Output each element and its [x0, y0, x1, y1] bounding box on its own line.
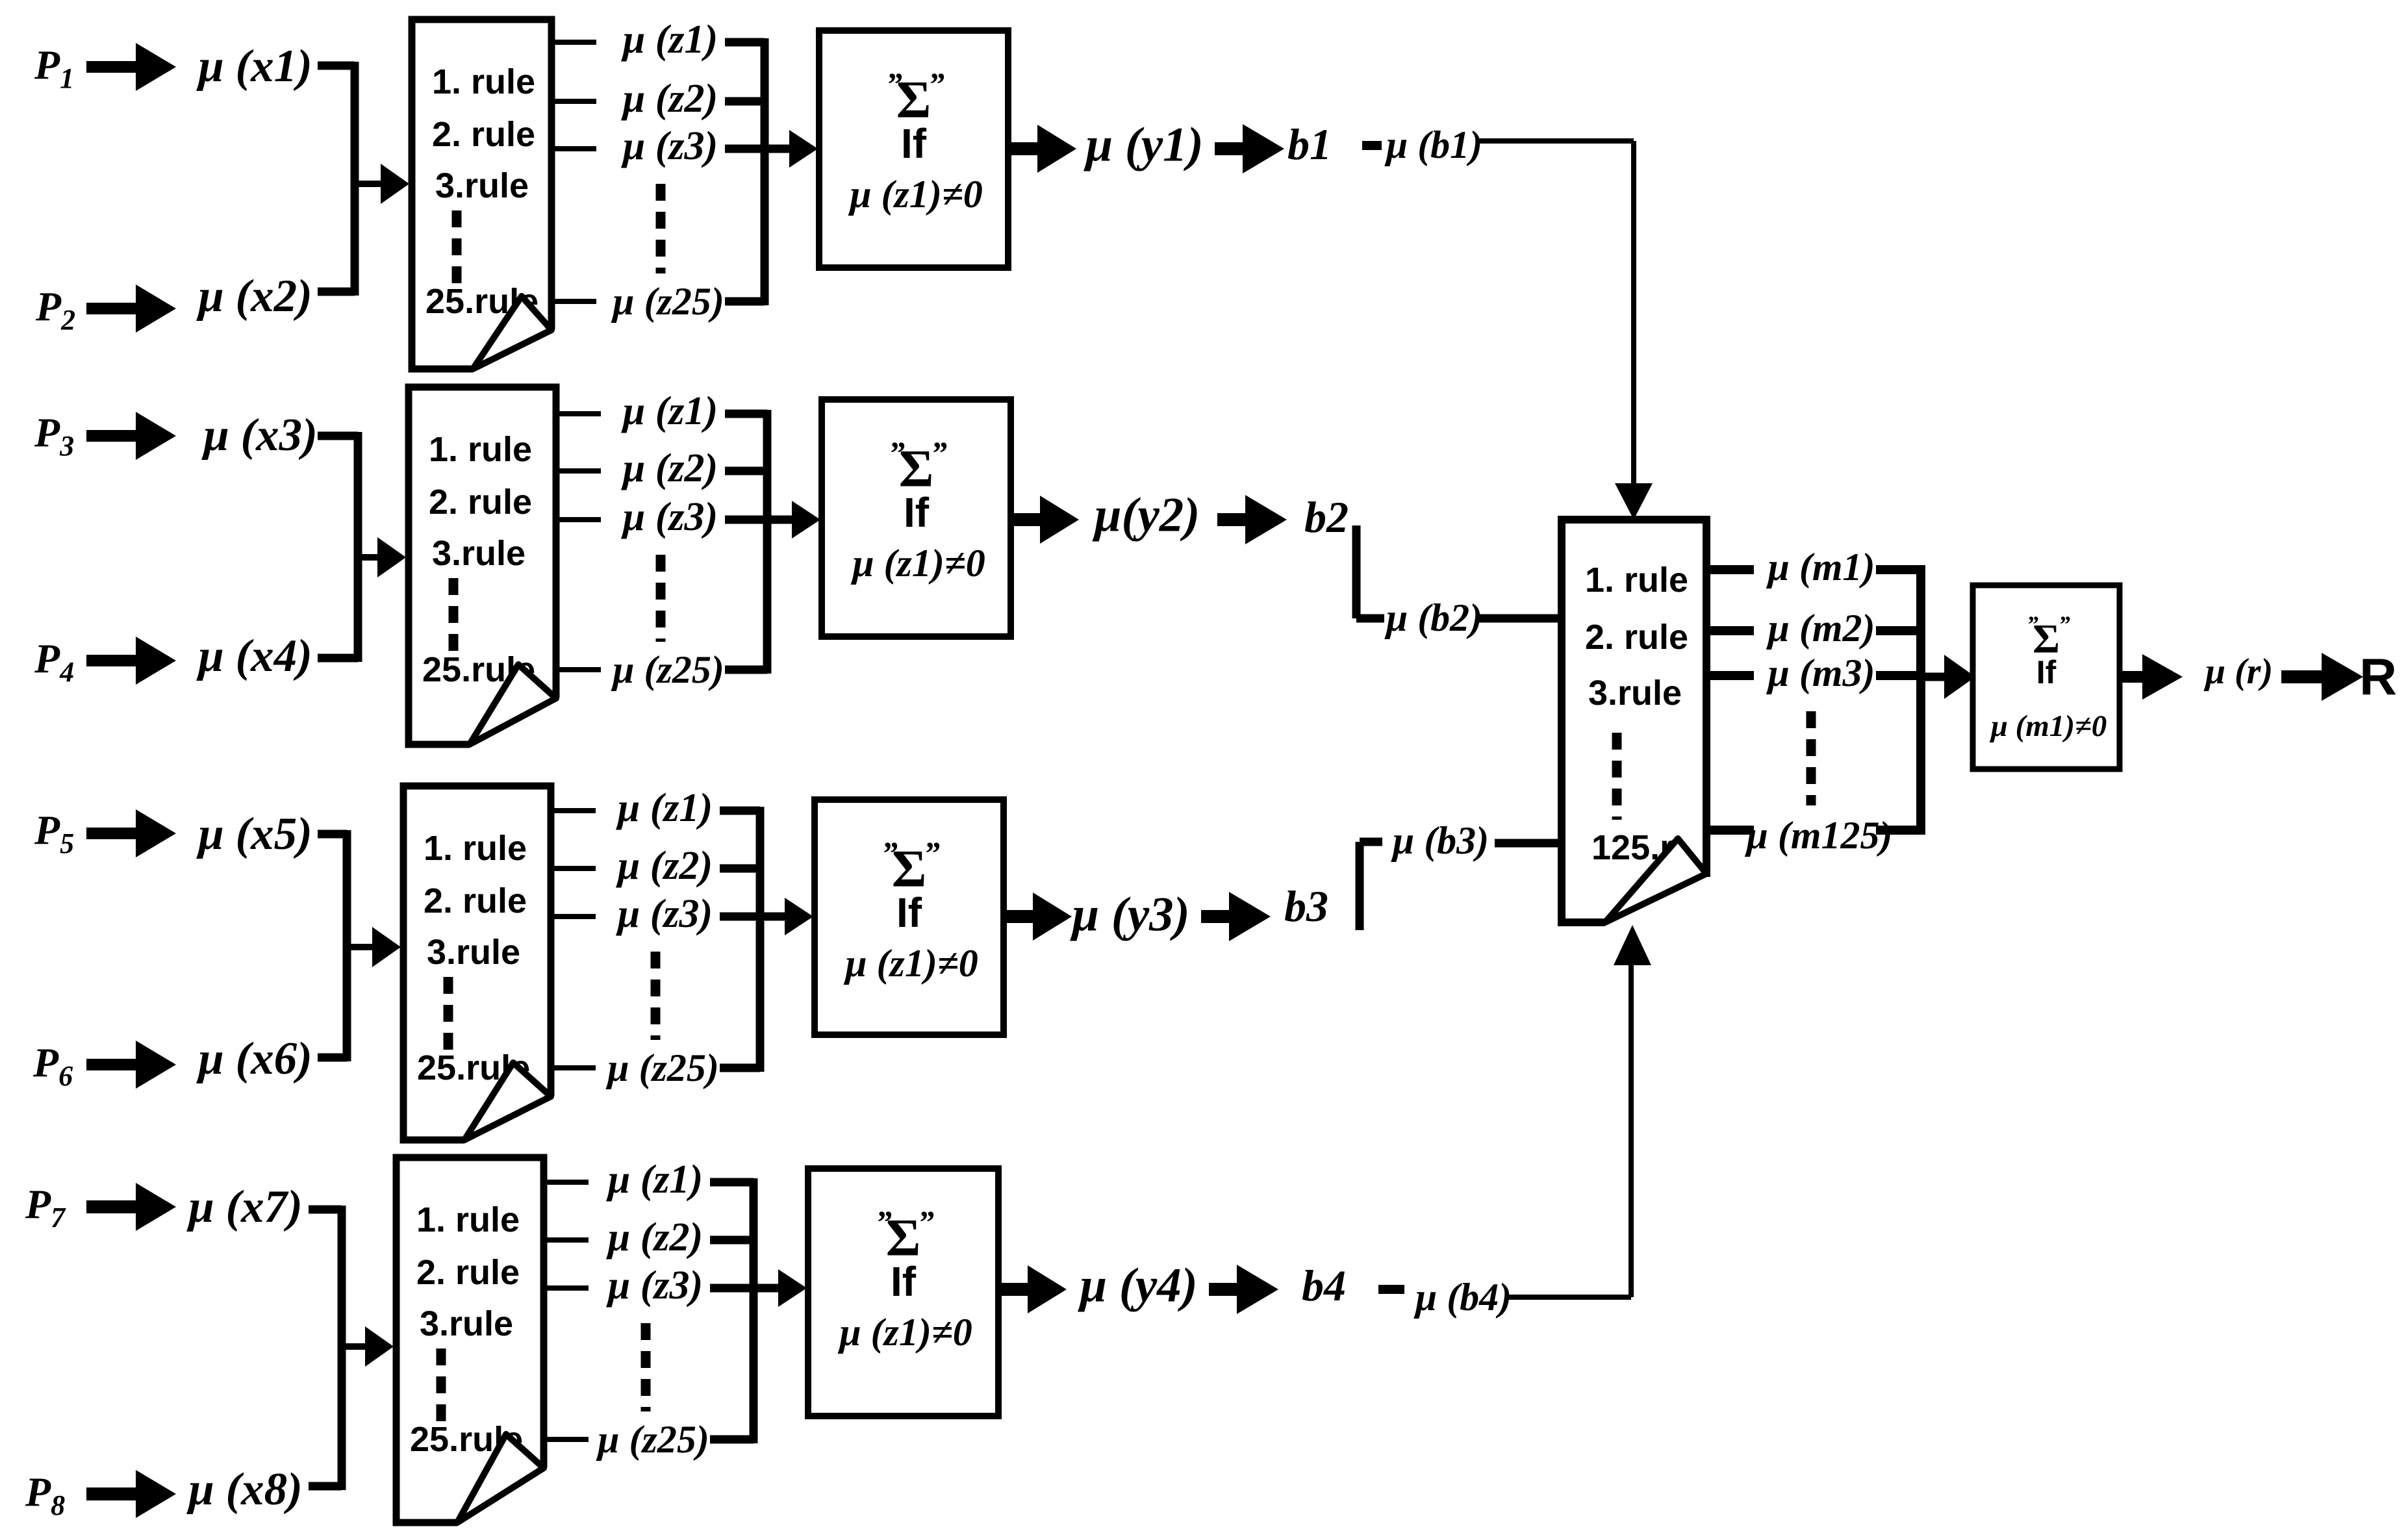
sigma box 4 — [808, 1169, 998, 1416]
svg-text:2. rule: 2. rule — [424, 881, 527, 920]
wire z2 stub row 3 — [552, 866, 596, 871]
svg-text:μ (z2): μ (z2) — [621, 446, 718, 490]
arrow out of sigma box 2 — [1011, 496, 1079, 544]
arrow into sigma box 1 — [765, 145, 789, 153]
wire mu(x5) to bracket — [318, 830, 347, 839]
svg-text:μ (z25): μ (z25) — [596, 1418, 709, 1461]
svg-text:μ (z2): μ (z2) — [621, 77, 718, 121]
svg-text:3.rule: 3.rule — [427, 933, 520, 972]
arrow out of sigma box 3 — [1004, 892, 1072, 941]
svg-text:μ (x1): μ (x1) — [196, 41, 312, 92]
wire mu(z1) to bracket row 3 — [720, 807, 760, 815]
svg-text:μ (b2): μ (b2) — [1384, 596, 1482, 639]
folded corner of rule block 4 — [457, 1434, 544, 1523]
wire b1 to central block top — [1479, 138, 1634, 144]
svg-text:μ (z3): μ (z3) — [606, 1263, 703, 1308]
wire mu(z3) to bracket row 3 — [720, 913, 760, 921]
wire b2 down from node b2 — [1352, 525, 1361, 618]
svg-text:3.rule: 3.rule — [435, 166, 529, 205]
svg-text:If: If — [896, 889, 922, 936]
rule block 2 (25 rules) — [409, 387, 556, 744]
arrow out of sigma box 4 — [998, 1265, 1067, 1313]
svg-text:b3: b3 — [1284, 881, 1328, 931]
wire mu(b3) to central block — [1495, 839, 1565, 848]
wire mu(x6) to bracket — [318, 1054, 347, 1062]
svg-text:1. rule: 1. rule — [1585, 561, 1688, 600]
wire z2 stub row 1 — [553, 99, 596, 104]
ellipsis dots z column row 3 — [651, 952, 661, 1040]
bracket z outputs row 2 — [763, 410, 772, 674]
svg-text:μ (x3): μ (x3) — [201, 410, 318, 461]
svg-text:μ (z2): μ (z2) — [606, 1215, 703, 1259]
wire mu(z1) to bracket row 4 — [710, 1178, 754, 1187]
svg-text:μ (x8): μ (x8) — [186, 1464, 303, 1515]
bracket z outputs row 1 — [761, 38, 769, 305]
arrow P1 input — [86, 43, 176, 91]
final sigma box — [1973, 585, 2120, 769]
svg-text:μ (m1): μ (m1) — [1766, 546, 1875, 588]
svg-text:3.rule: 3.rule — [1588, 674, 1682, 713]
arrow into sigma box 3 — [760, 913, 785, 921]
folded corner of central block — [1605, 839, 1706, 922]
wire z3 stub row 3 — [552, 914, 596, 919]
svg-text:2. rule: 2. rule — [1585, 618, 1688, 657]
arrow out of sigma box 1 — [1008, 125, 1076, 173]
svg-text:μ (b4): μ (b4) — [1413, 1276, 1512, 1319]
svg-text:μ (z1)≠0: μ (z1)≠0 — [850, 542, 985, 585]
arrow P8 input — [86, 1470, 176, 1518]
svg-text:b1: b1 — [1287, 120, 1332, 169]
wire z3 stub row 2 — [557, 517, 601, 522]
wire z3 stub row 1 — [553, 146, 596, 151]
svg-text:”: ” — [881, 835, 898, 871]
wire z2 stub row 2 — [557, 468, 601, 474]
bracket z outputs row 4 — [750, 1178, 758, 1443]
wire z25 stub row 3 — [552, 1065, 596, 1070]
wire mu(m125) to bracket — [1876, 826, 1921, 835]
arrow P6 input — [86, 1041, 176, 1089]
svg-text:μ (z3): μ (z3) — [621, 495, 718, 539]
svg-text:If: If — [901, 120, 927, 167]
svg-text:μ (y4): μ (y4) — [1077, 1259, 1197, 1313]
wire mu(m3) to bracket — [1876, 671, 1921, 680]
wire z1 stub row 2 — [557, 411, 601, 416]
wire mu(x7) to bracket — [309, 1206, 342, 1214]
svg-text:μ (z1)≠0: μ (z1)≠0 — [843, 942, 978, 985]
wire mu(z2) to bracket row 4 — [710, 1236, 754, 1245]
wire m125 stub — [1708, 826, 1754, 835]
svg-text:R: R — [2359, 648, 2397, 706]
wire mu(z2) to bracket row 3 — [720, 865, 760, 873]
wire mu(z1) to bracket row 1 — [725, 38, 765, 47]
wire mu(z25) to bracket row 3 — [720, 1064, 760, 1072]
svg-text:μ (x7): μ (x7) — [186, 1182, 303, 1232]
ellipsis dots z column row 1 — [656, 184, 666, 273]
wire mu(x8) to bracket — [309, 1482, 342, 1491]
svg-text:μ (z1)≠0: μ (z1)≠0 — [837, 1311, 972, 1354]
wire mu(z25) to bracket row 2 — [725, 666, 767, 674]
arrow into rule block 4 — [342, 1343, 370, 1350]
wire m1 stub — [1708, 565, 1754, 574]
wire b3 up from node b3 — [1356, 842, 1364, 930]
svg-text:μ (b3): μ (b3) — [1391, 819, 1489, 862]
svg-text:2. rule: 2. rule — [429, 483, 532, 522]
arrow P2 input — [86, 285, 176, 333]
svg-text:1. rule: 1. rule — [429, 430, 532, 469]
sigma box 1 — [819, 31, 1008, 268]
svg-text:μ (y3): μ (y3) — [1069, 888, 1189, 942]
sigma box 3 — [815, 800, 1004, 1035]
wire z3 stub row 4 — [545, 1285, 589, 1291]
wire z25 stub row 1 — [553, 299, 596, 304]
svg-text:”: ” — [2059, 611, 2070, 637]
rule block 1 (25 rules) — [412, 19, 551, 369]
bracket input merge row 3 — [343, 830, 351, 1061]
folded corner of rule block 3 — [464, 1063, 551, 1140]
svg-text:”: ” — [876, 1204, 892, 1240]
wire mu(z25) to bracket row 4 — [710, 1436, 754, 1444]
arrow out of final sigma box — [2120, 654, 2183, 700]
wire mu(m2) to bracket — [1876, 626, 1921, 635]
arrow P4 input — [86, 637, 176, 685]
arrow P5 input — [86, 809, 176, 857]
wire b4 to central block bottom — [1508, 1295, 1631, 1300]
svg-text:”: ” — [928, 66, 944, 102]
arrow mu(y3) to b3 — [1201, 892, 1271, 941]
arrow into rule block 1 — [355, 181, 386, 187]
svg-text:”: ” — [886, 66, 902, 102]
svg-text:”: ” — [918, 1204, 934, 1240]
svg-text:1. rule: 1. rule — [424, 829, 527, 868]
bracket input merge row 2 — [354, 432, 362, 662]
svg-text:μ (x5): μ (x5) — [196, 809, 312, 859]
svg-text:μ (z25): μ (z25) — [605, 1046, 719, 1089]
bracket input merge row 4 — [338, 1206, 346, 1490]
svg-text:”: ” — [2027, 611, 2038, 637]
svg-text:μ (z3): μ (z3) — [621, 124, 718, 168]
folded corner of rule block 1 — [473, 296, 551, 369]
arrow mu(y2) to b2 — [1217, 495, 1287, 544]
svg-text:2. rule: 2. rule — [416, 1253, 520, 1292]
ellipsis dots m column — [1806, 711, 1816, 805]
svg-text:”: ” — [889, 435, 905, 471]
wire mu(z2) to bracket row 2 — [725, 467, 767, 475]
svg-text:μ (m1)≠0: μ (m1)≠0 — [1990, 709, 2107, 743]
wire mu(z3) to bracket row 1 — [725, 145, 765, 153]
rule block 4 (25 rules) — [396, 1158, 544, 1523]
svg-text:μ(y2): μ(y2) — [1092, 488, 1200, 542]
svg-text:μ (z1): μ (z1) — [616, 786, 713, 830]
arrow mu(r) to R — [2281, 653, 2363, 701]
svg-text:μ (z1): μ (z1) — [606, 1158, 703, 1202]
wire mu(z3) to bracket row 2 — [725, 516, 767, 524]
svg-text:2. rule: 2. rule — [432, 115, 535, 154]
wire z2 stub row 4 — [545, 1237, 589, 1243]
wire mu(x1) to bracket — [318, 62, 355, 70]
wire mu(x4) to bracket — [318, 654, 358, 663]
wire z1 stub row 1 — [553, 40, 596, 45]
svg-text:μ (z3): μ (z3) — [616, 892, 713, 936]
arrow into sigma box 2 — [767, 516, 792, 524]
folded corner of rule block 2 — [470, 664, 556, 744]
wire mu(z25) to bracket row 1 — [725, 297, 765, 306]
wire mu(z3) to bracket row 4 — [710, 1284, 754, 1293]
wire z1 stub row 4 — [545, 1180, 589, 1185]
arrow into sigma box 4 — [754, 1284, 778, 1293]
svg-text:If: If — [2036, 654, 2057, 690]
svg-text:μ (z1)≠0: μ (z1)≠0 — [848, 173, 983, 216]
bracket m outputs — [1916, 565, 1925, 835]
wire m3 stub — [1708, 671, 1754, 680]
wire m2 stub — [1708, 626, 1754, 635]
svg-text:μ (z1): μ (z1) — [621, 18, 718, 62]
svg-text:μ (x2): μ (x2) — [196, 271, 312, 322]
svg-text:μ (m3): μ (m3) — [1766, 652, 1875, 694]
svg-text:μ (r): μ (r) — [2203, 652, 2273, 692]
svg-text:”: ” — [924, 835, 940, 871]
sigma box 2 — [822, 399, 1011, 637]
svg-text:μ (m2): μ (m2) — [1766, 607, 1875, 650]
svg-text:μ (z2): μ (z2) — [616, 844, 713, 888]
dash before mu(b4) — [1378, 1285, 1404, 1294]
wire mu(z2) to bracket row 1 — [725, 97, 765, 106]
svg-text:”: ” — [931, 435, 947, 471]
arrow into final sigma box — [1921, 673, 1948, 681]
dash before mu(b1) — [1362, 141, 1382, 150]
wire z1 stub row 3 — [552, 808, 596, 813]
svg-text:μ (y1): μ (y1) — [1083, 118, 1203, 172]
svg-text:If: If — [891, 1258, 917, 1305]
wire mu(x2) to bracket — [318, 288, 355, 296]
rule block 3 (25 rules) — [403, 786, 551, 1140]
wire z25 stub row 2 — [557, 667, 601, 672]
svg-text:μ (m125): μ (m125) — [1745, 814, 1893, 857]
wire mu(x3) to bracket — [318, 432, 358, 440]
wire mu(z1) to bracket row 2 — [725, 410, 767, 418]
svg-text:μ (x6): μ (x6) — [196, 1033, 312, 1084]
svg-text:μ (z25): μ (z25) — [611, 280, 724, 323]
wire z25 stub row 4 — [545, 1437, 589, 1442]
svg-text:3.rule: 3.rule — [420, 1304, 513, 1343]
ellipsis dots z column row 4 — [641, 1323, 651, 1411]
ellipsis dots z column row 2 — [656, 555, 666, 642]
arrow into rule block 3 — [347, 944, 377, 950]
svg-text:b4: b4 — [1302, 1261, 1346, 1310]
svg-text:μ (z1): μ (z1) — [621, 389, 718, 433]
central rule block (125 rules) — [1562, 520, 1706, 922]
svg-text:3.rule: 3.rule — [432, 534, 526, 573]
bracket z outputs row 3 — [756, 807, 765, 1072]
arrow P3 input — [86, 412, 176, 460]
wire mu(m1) to bracket — [1876, 565, 1921, 574]
arrow mu(y4) to b4 — [1209, 1265, 1278, 1314]
wire mu(b2) to central block — [1479, 614, 1565, 623]
svg-text:μ (x4): μ (x4) — [196, 631, 312, 681]
arrow into rule block 2 — [358, 554, 383, 561]
svg-text:1. rule: 1. rule — [416, 1200, 520, 1239]
svg-text:μ (b1): μ (b1) — [1384, 123, 1482, 166]
svg-text:b2: b2 — [1304, 492, 1349, 542]
bracket input merge row 1 — [351, 62, 359, 296]
arrow P7 input — [86, 1183, 176, 1231]
svg-text:μ (z25): μ (z25) — [611, 648, 724, 691]
arrow mu(y1) to b1 — [1215, 124, 1284, 173]
svg-text:1. rule: 1. rule — [432, 62, 535, 101]
svg-text:If: If — [904, 489, 930, 536]
